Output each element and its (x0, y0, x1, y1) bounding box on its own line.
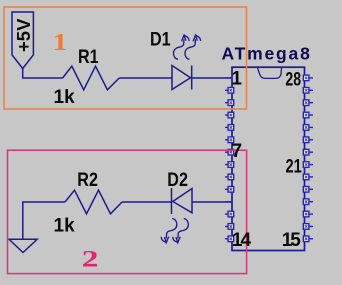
svg-text:2: 2 (82, 247, 99, 272)
resistor R2 (65, 190, 122, 214)
svg-text:R2: R2 (77, 169, 98, 191)
svg-text:1k: 1k (54, 87, 76, 108)
ground (9, 239, 37, 252)
wire +5V to R1 (23, 69, 63, 79)
wire D1 to pin 1 (192, 77, 232, 79)
D1 light emission arrows (174, 35, 201, 59)
wire R1 to D1 (119, 77, 172, 79)
svg-text:5: 5 (290, 230, 301, 251)
svg-text:ATmega8: ATmega8 (222, 44, 311, 64)
svg-text:1: 1 (231, 69, 242, 90)
diode D2 (LED) (172, 188, 193, 214)
wire D2 to pin 11 (192, 201, 232, 203)
wire ground to R2 (23, 202, 65, 239)
wire R2 to D2 (122, 201, 172, 203)
svg-text:4: 4 (241, 230, 252, 251)
svg-text:1k: 1k (54, 216, 76, 237)
IC U1 ATmega8 body (232, 67, 305, 250)
svg-text:1: 1 (52, 29, 67, 56)
svg-text:D2: D2 (167, 169, 188, 191)
D2 light emission arrows (161, 218, 188, 242)
svg-text:7: 7 (232, 141, 243, 162)
svg-text:+5V: +5V (13, 18, 34, 52)
diode D1 (LED) (172, 66, 192, 90)
region box 1 (4, 7, 247, 109)
power +5V symbol (12, 12, 34, 69)
resistor R1 (63, 66, 120, 90)
svg-text:21: 21 (286, 156, 302, 177)
IC left pins 1-14 (225, 78, 234, 242)
svg-text:28: 28 (285, 68, 301, 90)
region box 2 (8, 150, 247, 273)
svg-text:R1: R1 (78, 46, 99, 68)
svg-text:D1: D1 (150, 28, 171, 50)
IC right pins 28-15 (303, 75, 313, 242)
